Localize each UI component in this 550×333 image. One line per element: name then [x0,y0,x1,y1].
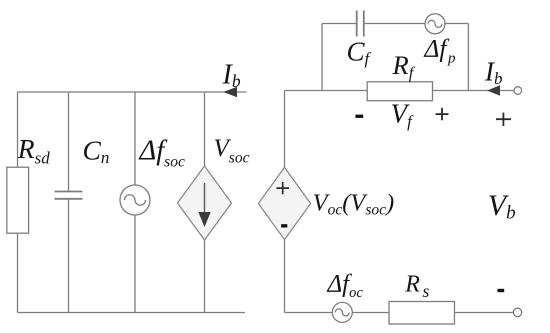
wire: V_oc branch lower [284,240,286,313]
wire: V_soc branch [204,92,206,313]
wire: delta-f-soc branch [134,92,136,313]
resistor R_f [367,82,432,101]
terminal: bottom right [513,308,521,316]
wire: loop right vertical [467,24,469,91]
dependent voltage source V_oc(V_soc) (diamond) [258,167,310,239]
capacitor C_f [357,11,364,37]
wire: right main rail [285,90,515,92]
wire: left circuit top rail [18,91,247,93]
wire: loop top branch [322,23,468,25]
svg-text:Δfsoc: Δfsoc [139,136,185,171]
svg-text:Cn: Cn [83,135,110,168]
wire: right bottom rail [285,312,514,314]
wire: C_f / delta-f-p loop left vertical [321,24,323,91]
AC source delta-f-soc [120,185,150,215]
svg-text:Rsd: Rsd [17,133,50,168]
label plus (V_f) [436,108,449,121]
svg-text:Voc(Vsoc): Voc(Vsoc) [313,189,395,218]
svg-text:Δfp: Δfp [423,34,456,67]
svg-text:Vb: Vb [488,189,516,224]
wire: left vertical branch (R_sd branch) [17,92,19,313]
svg-text:Cf: Cf [347,37,372,69]
label minus (V_b) [498,289,505,292]
svg-text:Vf: Vf [391,99,415,132]
svg-text:Rs: Rs [404,272,429,302]
resistor R_s [389,302,455,325]
svg-text:Ib: Ib [484,57,503,89]
current arrow I_b (left) [223,87,237,97]
wire: C_n branch [68,92,70,313]
svg-text:Ib: Ib [222,60,241,92]
svg-text:Vsoc: Vsoc [214,135,250,167]
resistor R_sd [7,167,29,233]
capacitor C_n [55,192,83,199]
svg-text:Rf: Rf [392,50,416,83]
dependent current source V_soc (diamond) [178,166,232,240]
terminal: top right [514,87,522,95]
current arrow I_b (right) [487,85,500,95]
wire: left circuit bottom rail [18,312,246,314]
AC source delta-f-oc [332,302,352,322]
AC source delta-f-p [425,14,445,34]
label minus (V_f) [355,115,363,118]
wire: V_oc branch upper [284,91,286,168]
label plus (V_b) [496,113,511,126]
svg-text:Δfoc: Δfoc [327,271,364,302]
